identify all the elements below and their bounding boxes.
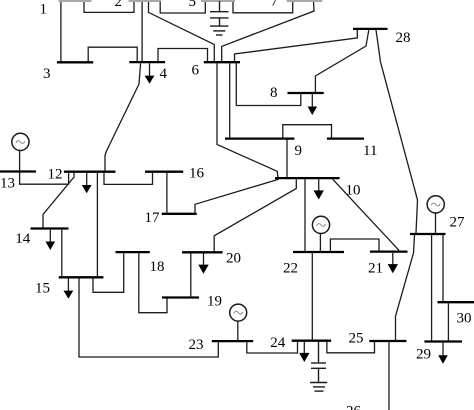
bus 21 xyxy=(370,250,408,252)
load arrow bus 21 xyxy=(388,253,398,273)
wire generator stem bus 13 xyxy=(19,151,21,171)
wire 16-17 xyxy=(166,173,168,213)
svg-text:23: 23 xyxy=(189,337,204,353)
generator G22 xyxy=(312,216,329,233)
bus 24 xyxy=(292,340,332,342)
wire loop 2-5 xyxy=(160,1,205,13)
svg-text:28: 28 xyxy=(396,30,411,46)
bus 15 xyxy=(59,276,104,278)
load arrow bus 24 xyxy=(299,342,309,362)
bus 17 xyxy=(162,213,197,215)
wire 15-23 xyxy=(79,278,218,357)
bus 9 xyxy=(225,137,294,139)
svg-text:22: 22 xyxy=(283,261,298,277)
bus 2 bar (cut at top) xyxy=(129,0,162,2)
svg-text:29: 29 xyxy=(416,347,431,363)
svg-text:3: 3 xyxy=(43,66,51,82)
svg-text:16: 16 xyxy=(189,166,205,182)
wire 12-16 xyxy=(104,173,153,185)
svg-text:21: 21 xyxy=(368,261,383,277)
bus 4 xyxy=(129,61,165,63)
svg-text:26: 26 xyxy=(346,404,362,410)
wire 27-30 xyxy=(442,235,444,301)
load arrow bus 15 xyxy=(64,278,74,299)
bus 30 xyxy=(438,301,474,303)
bus 14 xyxy=(31,227,69,229)
bus 8 xyxy=(288,92,324,94)
bus 25 xyxy=(369,340,406,342)
wire 10-17 xyxy=(195,179,279,213)
wire 6-10 xyxy=(217,63,278,177)
wire 12-15 xyxy=(96,173,98,277)
wire loop 1-2 xyxy=(84,1,134,12)
wire 18-19 xyxy=(139,253,167,313)
svg-text:18: 18 xyxy=(150,259,165,275)
wire 7-6 xyxy=(222,1,314,61)
bus 29 xyxy=(424,340,462,342)
shunt capacitor + ground at bus 5 xyxy=(210,1,229,35)
wire 9-10 xyxy=(286,140,288,178)
load arrow bus 4 xyxy=(145,63,155,84)
wire 6-9 xyxy=(229,63,231,137)
wire 23-24 xyxy=(247,342,298,353)
bus 7 bar (cut at top) xyxy=(287,0,323,2)
svg-text:1: 1 xyxy=(40,2,48,18)
wire 6-8 xyxy=(236,63,300,105)
svg-text:24: 24 xyxy=(270,335,286,351)
svg-text:12: 12 xyxy=(48,167,63,183)
wire generator stem bus 23 xyxy=(237,321,239,340)
wire loop 3-4 xyxy=(88,47,137,62)
generator G27 xyxy=(427,196,444,213)
wire 19-20 xyxy=(190,253,192,296)
svg-text:27: 27 xyxy=(450,215,466,231)
wire 14-15 xyxy=(61,230,63,277)
wire loop 5-7 xyxy=(233,1,293,13)
svg-text:13: 13 xyxy=(0,176,15,192)
svg-text:5: 5 xyxy=(189,0,197,10)
wire generator stem bus 27 xyxy=(435,213,437,233)
svg-text:20: 20 xyxy=(226,250,241,266)
svg-text:8: 8 xyxy=(270,85,278,101)
wire 24-25 xyxy=(327,342,375,353)
wire 28-27 xyxy=(376,30,418,233)
svg-text:10: 10 xyxy=(346,183,361,199)
shunt capacitor + ground at bus 24 xyxy=(310,342,327,391)
wire 6-28 xyxy=(235,29,358,62)
svg-text:30: 30 xyxy=(457,311,472,327)
wire 8-28 xyxy=(315,29,369,92)
load arrow bus 12 xyxy=(82,173,92,194)
wire 12-14 xyxy=(43,173,74,228)
load arrow bus 8 xyxy=(308,94,318,115)
wire 27-29 xyxy=(431,235,433,340)
wire 10-21 xyxy=(333,179,399,250)
generator G23 xyxy=(230,304,247,321)
wire 4-12 xyxy=(105,63,141,170)
svg-text:4: 4 xyxy=(160,66,168,82)
wire 25-26 xyxy=(388,342,390,410)
bus 10 xyxy=(275,177,340,179)
bus 12 xyxy=(64,171,116,173)
bus 3 xyxy=(57,61,93,63)
wire generator stem bus 22 xyxy=(319,234,321,251)
wire 22-24 xyxy=(311,253,313,340)
bus 1 bar (cut at top) xyxy=(59,0,92,2)
load arrow bus 20 xyxy=(198,253,208,273)
svg-text:2: 2 xyxy=(115,0,123,10)
load arrow bus 10 xyxy=(314,179,324,199)
bus 23 xyxy=(212,340,253,342)
bus 16 xyxy=(145,171,183,173)
bus 5 bar (cut at top) xyxy=(201,0,235,2)
generator G13 xyxy=(12,133,29,150)
load arrow bus 29 xyxy=(438,343,448,364)
svg-text:17: 17 xyxy=(145,210,161,226)
bus 20 xyxy=(182,251,223,253)
wire loop 4-6 xyxy=(158,49,208,62)
svg-text:7: 7 xyxy=(271,0,279,9)
wire loop 9-11 xyxy=(283,125,332,138)
bus 27 xyxy=(410,233,446,235)
wire 15-18 xyxy=(93,253,124,292)
wire 29-30 xyxy=(447,303,449,340)
wire 2-6 xyxy=(149,1,215,61)
bus 28 xyxy=(353,28,388,30)
wire 10-20 xyxy=(214,179,296,251)
svg-text:6: 6 xyxy=(192,63,200,79)
bus 18 xyxy=(116,251,150,253)
wire 2-4 xyxy=(141,1,143,61)
bus 6 xyxy=(204,61,240,63)
bus 22 xyxy=(293,251,344,253)
svg-text:9: 9 xyxy=(295,143,303,159)
svg-text:15: 15 xyxy=(35,281,50,297)
bus 13 xyxy=(0,170,36,172)
wire 25-27 xyxy=(396,235,415,340)
wire 12-13 xyxy=(20,172,69,184)
wire loop 21-22 xyxy=(330,239,379,251)
bus 11 xyxy=(327,137,364,139)
svg-text:11: 11 xyxy=(363,143,377,159)
load arrow bus 14 xyxy=(46,230,56,250)
bus 19 xyxy=(162,296,199,298)
svg-text:25: 25 xyxy=(349,331,364,347)
wire 10-22 xyxy=(304,179,306,251)
svg-text:14: 14 xyxy=(15,231,30,247)
wire 1-3 xyxy=(60,1,62,62)
svg-text:19: 19 xyxy=(207,294,222,310)
